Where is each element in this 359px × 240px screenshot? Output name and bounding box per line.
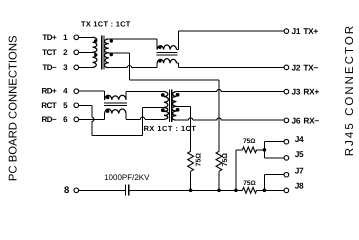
wire choke L1 top-right to J1 (177, 31, 285, 49)
wire pin5 RCT under-route (79, 105, 164, 135)
wire pin8 to capacitor C1 (79, 189, 125, 191)
svg-text:TD−: TD− (42, 63, 57, 72)
label J3 RX+ (292, 87, 320, 97)
phase dot L2 bottom (106, 110, 109, 113)
pin label TCT 2 (42, 48, 68, 57)
wire pin2 to T1 primary center tap (79, 51, 93, 53)
resistor R4 75Ω (J7/J8 termination) (242, 187, 256, 193)
transformer T2 secondary winding (172, 92, 176, 121)
svg-text:5: 5 (63, 101, 68, 110)
pin label RD+ 4 (41, 87, 68, 96)
side caption: PC BOARD CONNECTIONS (8, 35, 20, 181)
transformer T1 secondary winding (104, 39, 108, 68)
svg-text:1000PF/2KV: 1000PF/2KV (104, 173, 150, 182)
svg-text:RD+: RD+ (41, 87, 57, 96)
wire ground rail (129, 189, 242, 191)
wire choke L1 bottom-right to J2 (177, 63, 285, 67)
svg-text:1: 1 (63, 33, 68, 42)
transformer T1 primary winding (93, 37, 97, 67)
svg-text:J4: J4 (295, 134, 304, 144)
svg-text:75Ω: 75Ω (222, 153, 229, 167)
wire T1 secondary center tap (109, 53, 219, 80)
junction R2/rail (217, 189, 221, 193)
terminal pin 3 (74, 65, 79, 70)
phase dot L2 top (106, 96, 109, 99)
terminal J1 (284, 29, 289, 34)
phase dot T2 secondary upper (176, 93, 180, 97)
label TX 1CT : 1CT (81, 20, 131, 29)
side caption: RJ45 CONNECTOR (344, 24, 356, 156)
phase dot L1 top (158, 46, 161, 49)
wire tee to J4 (264, 142, 284, 150)
pin label TD− 3 (42, 63, 68, 72)
terminal J5 (284, 156, 289, 161)
terminal J3 (284, 89, 289, 94)
resistor R2 75Ω (TX center-tap termination) (216, 151, 222, 171)
phase dot T2 primary lower (161, 108, 165, 112)
phase dot T1 primary upper (94, 39, 97, 42)
svg-text:J6: J6 (292, 115, 301, 125)
wire R1 to ground rail (190, 171, 192, 190)
wire R3 to J4/J5 tee (257, 149, 265, 151)
svg-text:TX+: TX+ (303, 26, 318, 36)
wire choke L2 top-right to T2 primary top (126, 92, 164, 100)
resistor R3 75Ω (J4/J5 termination) (242, 147, 256, 153)
pin label TD+ 1 (42, 33, 68, 42)
svg-text:PC BOARD CONNECTIONS: PC BOARD CONNECTIONS (8, 35, 20, 181)
svg-text:75Ω: 75Ω (195, 153, 202, 167)
wire tee to J5 (264, 150, 284, 158)
wire T1 secondary top to choke L1 (109, 39, 157, 50)
label J4 (295, 134, 304, 144)
junction rail/R3 branch (234, 189, 238, 193)
wire pin4 to choke L2 (79, 91, 105, 100)
pin label RCT 5 (41, 101, 68, 110)
choke L1 core (156, 53, 177, 55)
wire tee to J7 (264, 175, 284, 191)
phase dot T1 secondary lower (110, 53, 113, 56)
svg-text:J2: J2 (292, 62, 301, 72)
label RX 1CT : 1CT (144, 124, 197, 133)
label J8 (295, 181, 304, 191)
phase dot T1 secondary upper (110, 39, 113, 42)
wire TX center-tap vertical to R2 (218, 80, 220, 152)
svg-text:J3: J3 (292, 87, 301, 97)
transformer T2 core (169, 89, 172, 122)
label J6 RX− (292, 115, 320, 125)
svg-text:TX 1CT : 1CT: TX 1CT : 1CT (81, 20, 131, 29)
svg-text:8: 8 (64, 185, 69, 196)
choke L2 core (104, 103, 127, 105)
resistor R1 75Ω (RX center-tap termination) (188, 151, 194, 171)
svg-text:J5: J5 (295, 149, 304, 159)
phase dot T1 primary lower (94, 53, 97, 56)
transformer T1 core (101, 35, 104, 69)
label R3 75Ω (243, 138, 255, 145)
terminal pin 6 (74, 117, 79, 122)
junction J4/J5 tee (263, 148, 267, 152)
svg-text:RCT: RCT (41, 101, 57, 110)
terminal pin 4 (74, 89, 79, 94)
label R2 75Ω (222, 153, 229, 167)
svg-text:J8: J8 (295, 181, 304, 191)
svg-text:TX−: TX− (303, 62, 318, 72)
svg-text:6: 6 (63, 115, 68, 124)
wire pin1 to T1 primary top (79, 36, 93, 38)
terminal pin 8 (74, 188, 79, 193)
wire rail to resistor R3 (236, 150, 243, 191)
label J1 TX+ (292, 26, 319, 36)
svg-text:3: 3 (63, 63, 68, 72)
svg-text:TCT: TCT (42, 48, 57, 57)
label J2 TX− (292, 62, 319, 72)
choke L2 top winding (105, 95, 126, 100)
terminal J2 (284, 65, 289, 70)
choke L1 top winding (157, 45, 176, 50)
wire T2 secondary top to J3 (176, 89, 284, 91)
wire T2 secondary center tap to R1 (176, 106, 190, 151)
wire pin3 to T1 primary bottom (79, 66, 93, 68)
terminal J6 (284, 118, 289, 123)
svg-text:RX 1CT : 1CT: RX 1CT : 1CT (144, 124, 197, 133)
label J7 (295, 166, 304, 176)
choke L2 bottom winding (105, 109, 126, 114)
label J5 (295, 149, 304, 159)
pin label RD− 6 (41, 115, 68, 124)
terminal pin 1 (74, 35, 79, 40)
wire choke L1 bottom-left to T1 secondary bottom (109, 63, 157, 67)
svg-text:J7: J7 (295, 166, 304, 176)
terminal J7 (284, 172, 289, 177)
pin label 8 (64, 185, 69, 196)
transformer T2 primary winding (164, 92, 168, 120)
junction J7/J8 tee (263, 189, 267, 193)
svg-text:4: 4 (63, 87, 68, 96)
svg-text:J1: J1 (292, 26, 301, 36)
wire tee to J8 (264, 189, 284, 191)
label C1 1000PF/2KV (104, 173, 150, 182)
junction R1/rail (189, 189, 193, 193)
svg-text:RJ45 CONNECTOR: RJ45 CONNECTOR (344, 24, 356, 156)
label R4 75Ω (243, 180, 255, 187)
wire pin6 to choke L2 (79, 114, 105, 120)
phase dot L1 bottom (158, 59, 161, 62)
terminal J8 (284, 188, 289, 193)
svg-text:75Ω: 75Ω (243, 138, 255, 145)
wire R4 to J7/J8 tee (257, 189, 265, 191)
terminal pin 5 (74, 103, 79, 108)
terminal pin 2 (74, 50, 79, 55)
wire R2 to ground rail (218, 171, 220, 190)
svg-text:RX+: RX+ (303, 87, 319, 97)
terminal J4 (284, 139, 289, 144)
label R1 75Ω (195, 153, 202, 167)
choke L1 bottom winding (157, 59, 176, 64)
svg-text:75Ω: 75Ω (243, 180, 255, 187)
capacitor C1 1000PF/2KV (125, 185, 130, 196)
phase dot T2 primary upper (161, 93, 165, 97)
svg-text:RD−: RD− (41, 115, 57, 124)
phase dot T2 secondary lower (176, 108, 180, 112)
wire T2 secondary bottom to J6 (176, 118, 284, 120)
svg-text:RX−: RX− (303, 115, 319, 125)
wire choke L2 bottom-right to T2 primary bottom (126, 114, 164, 120)
svg-text:TD+: TD+ (42, 33, 57, 42)
svg-text:2: 2 (63, 48, 68, 57)
